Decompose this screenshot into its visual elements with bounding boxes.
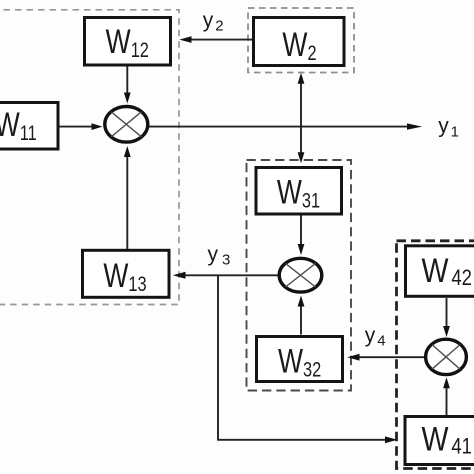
block W31: [256, 168, 342, 215]
wire W11 to summing junction S1: [59, 126, 94, 128]
wire y3 branch to W41: [217, 439, 387, 441]
wire W42 to summing junction S3: [446, 298, 448, 329]
wire W12 to summing junction S1: [126, 65, 128, 95]
svg-text:1: 1: [451, 123, 459, 140]
svg-text:y: y: [365, 324, 376, 347]
wire W2 to W12 group (y2): [189, 39, 254, 41]
block W41: [405, 417, 474, 465]
wire summing junction S2 to W13 (y3): [183, 274, 279, 276]
wire summing junction S3 to W32 (y4): [357, 356, 425, 358]
svg-text:3: 3: [222, 251, 230, 268]
subsystem dashed box S2 (W2 group): [248, 8, 354, 73]
block W42: [406, 246, 474, 296]
wire summing junction S1 to output y1: [148, 126, 409, 128]
branch wire y3 down: [217, 275, 219, 440]
block W11: [0, 103, 58, 150]
double arrow wire W2 to W31 crossing y1 line: [300, 81, 302, 155]
block W12: [85, 18, 171, 66]
svg-text:4: 4: [377, 332, 385, 349]
wire W13 to summing junction S1: [126, 152, 128, 249]
subsystem dashed box S4 (W41 W42 group): [397, 241, 474, 469]
svg-text:y: y: [438, 115, 449, 138]
subsystem dashed box S1 (W11 W12 W13 group): [0, 10, 179, 305]
block W32: [257, 337, 343, 382]
summing junction S2: [279, 258, 322, 292]
block W2: [254, 18, 345, 66]
wire W31 to summing junction S2: [300, 216, 302, 248]
svg-text:y: y: [203, 9, 214, 32]
subsystem dashed box S3 (W31 W32 group): [247, 160, 352, 391]
wire W41 to summing junction S3: [446, 385, 448, 415]
svg-text:y: y: [208, 243, 219, 266]
summing junction S3: [426, 339, 467, 374]
block W13: [83, 250, 170, 297]
wire W32 to summing junction S2: [300, 303, 302, 335]
svg-text:2: 2: [215, 17, 223, 34]
summing junction S1: [105, 107, 148, 143]
